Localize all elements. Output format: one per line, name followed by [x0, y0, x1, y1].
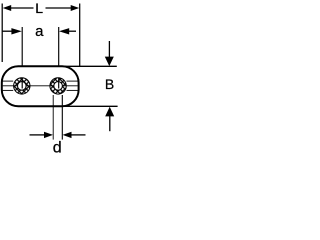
dimension a extension line left (through left hole) [21, 27, 23, 89]
bore line lower left [3, 89, 14, 91]
left hole inner circle [18, 82, 27, 91]
dimension B arrow top tail [108, 41, 110, 58]
dimension L extension line left [1, 4, 3, 63]
dimension B arrow top [105, 57, 114, 67]
dimension d tail left [30, 134, 45, 136]
dimension d arrow left [44, 132, 53, 138]
bore line upper right [67, 80, 78, 82]
dimension a arrow right [59, 28, 69, 34]
plate outline [2, 66, 79, 106]
dimension d arrow right [63, 132, 72, 138]
dimension a tail line right [69, 30, 77, 32]
dimension a tail left [2, 30, 12, 32]
dimension d extension line left [52, 95, 54, 140]
dimension B arrow bottom tail [109, 116, 111, 132]
right hole hatched ring [50, 78, 66, 94]
dimension B extension line top [60, 65, 117, 67]
left hole outer circle [14, 78, 30, 94]
dimension a extension line right (through right hole) [58, 27, 60, 89]
right hole outer circle [50, 78, 66, 94]
dimension B arrow bottom [105, 107, 114, 117]
redraw a extension into holes [22, 78, 59, 89]
horizontal centerline [3, 85, 78, 87]
svg-text:L: L [35, 0, 43, 16]
dimension L arrow left [3, 5, 12, 11]
dimension d tail right [71, 134, 86, 136]
dimension d extension line right [61, 95, 63, 140]
dimension L line [9, 7, 74, 9]
dimension L arrow right [71, 5, 80, 11]
left hole hatched ring [14, 78, 30, 94]
svg-text:d: d [53, 140, 62, 157]
svg-text:a: a [35, 23, 44, 40]
bore line lower right [67, 89, 78, 91]
dimension a arrow left [11, 28, 21, 34]
bore line upper left [3, 80, 14, 82]
dimension L extension line right [79, 4, 81, 67]
dimension B extension line bottom [61, 105, 118, 107]
svg-text:B: B [105, 76, 114, 92]
right hole inner circle [54, 82, 63, 91]
